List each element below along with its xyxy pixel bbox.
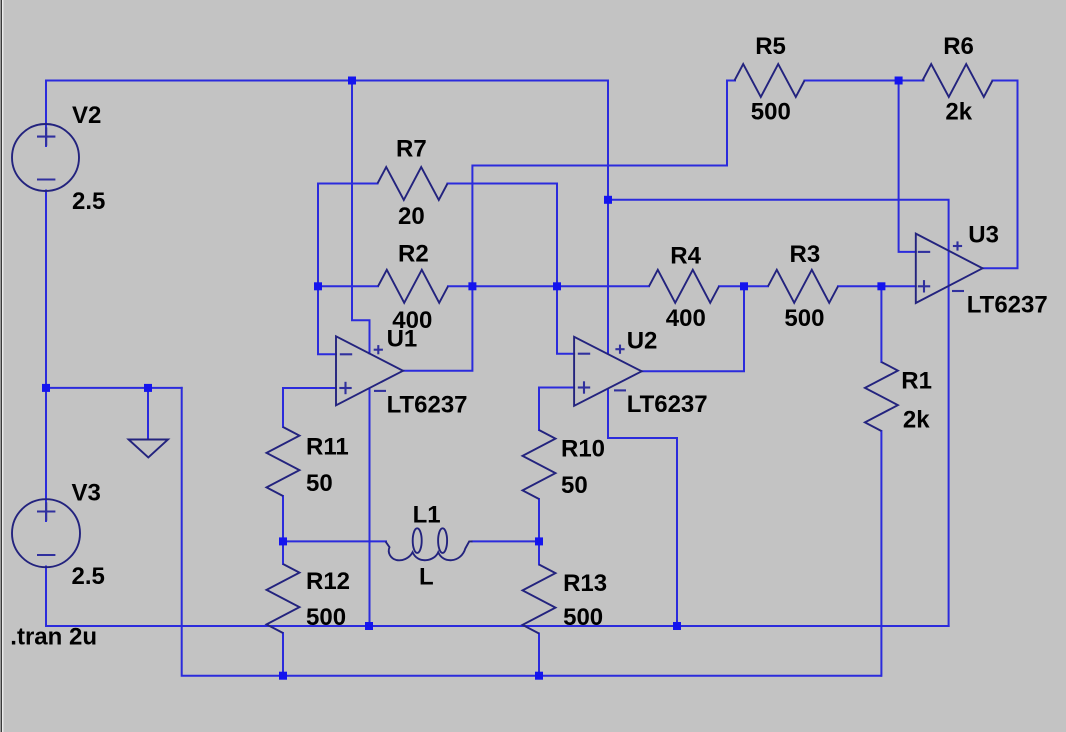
- svg-text:R5: R5: [755, 33, 786, 60]
- svg-text:.tran 2u: .tran 2u: [10, 623, 97, 650]
- svg-text:2k: 2k: [903, 407, 930, 434]
- svg-text:R6: R6: [943, 33, 974, 60]
- svg-text:500: 500: [751, 99, 791, 126]
- svg-text:R2: R2: [398, 241, 429, 268]
- svg-text:U2: U2: [627, 328, 658, 355]
- svg-text:2k: 2k: [945, 99, 972, 126]
- svg-text:R10: R10: [561, 436, 605, 463]
- svg-text:500: 500: [563, 604, 603, 631]
- svg-text:500: 500: [784, 305, 824, 332]
- svg-text:R1: R1: [901, 367, 932, 394]
- svg-text:V2: V2: [72, 102, 101, 129]
- svg-text:R4: R4: [670, 243, 701, 270]
- svg-text:50: 50: [561, 472, 588, 499]
- svg-text:R12: R12: [306, 568, 350, 595]
- svg-text:R11: R11: [306, 434, 349, 461]
- svg-text:V3: V3: [72, 479, 101, 506]
- svg-text:20: 20: [398, 203, 425, 230]
- svg-text:L1: L1: [413, 502, 441, 529]
- svg-text:U3: U3: [968, 221, 999, 248]
- svg-text:R13: R13: [563, 570, 607, 597]
- svg-text:U1: U1: [387, 326, 418, 353]
- svg-text:LT6237: LT6237: [967, 292, 1048, 319]
- svg-text:50: 50: [306, 470, 333, 497]
- svg-text:R7: R7: [396, 136, 427, 163]
- svg-text:500: 500: [306, 604, 346, 631]
- svg-text:2.5: 2.5: [72, 563, 105, 590]
- svg-text:L: L: [419, 564, 434, 591]
- svg-text:400: 400: [666, 305, 706, 332]
- svg-text:R3: R3: [790, 241, 821, 268]
- svg-text:2.5: 2.5: [72, 188, 105, 215]
- svg-text:LT6237: LT6237: [387, 392, 468, 419]
- svg-text:LT6237: LT6237: [627, 391, 708, 418]
